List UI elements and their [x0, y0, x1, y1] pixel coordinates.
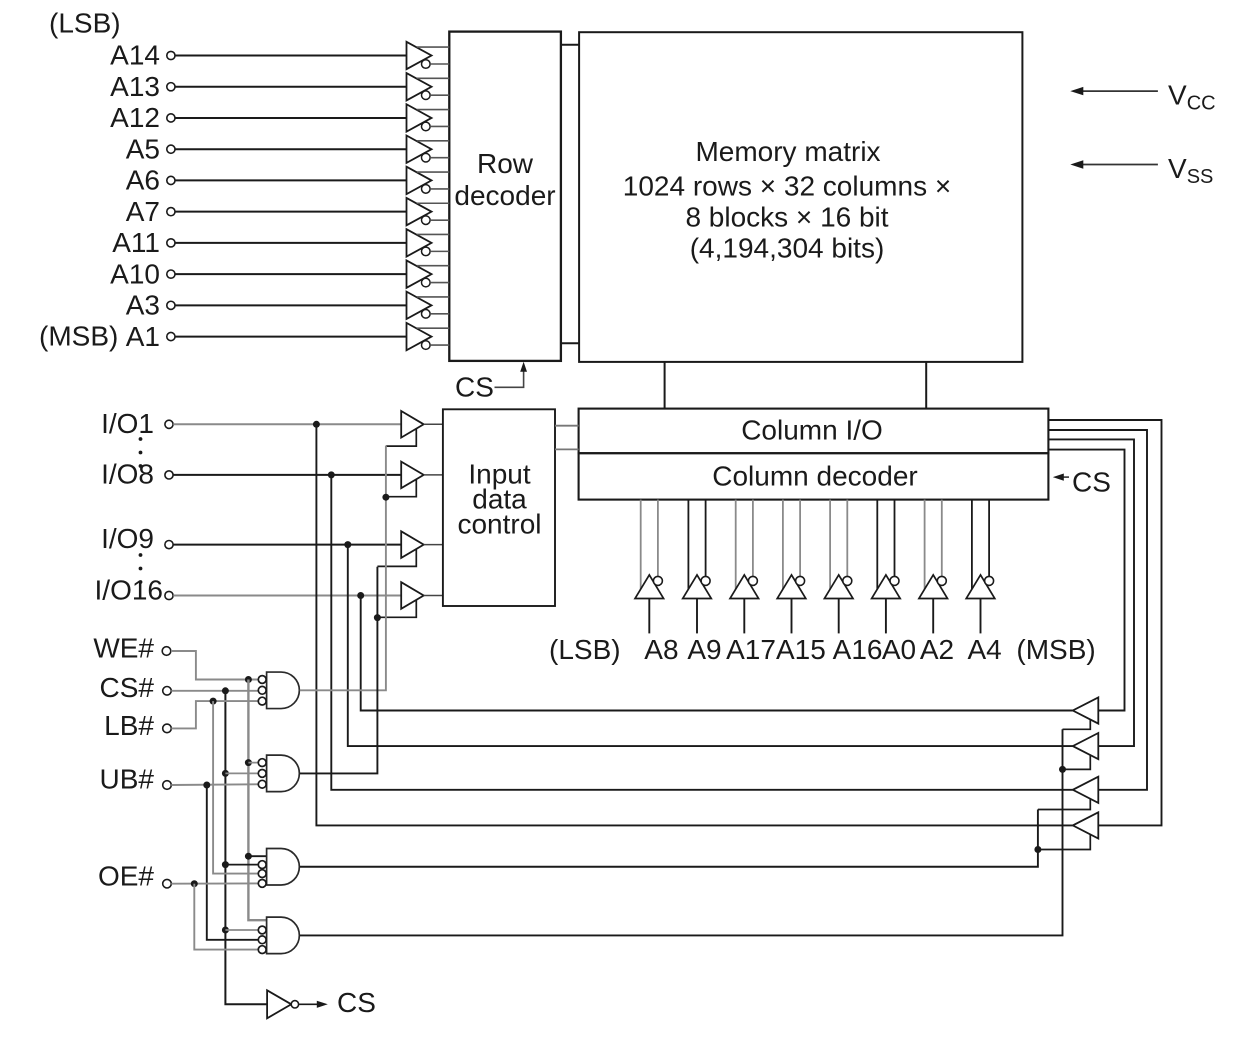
column address buffer A8	[635, 575, 664, 599]
inversion bubble A14	[422, 60, 431, 69]
AND gate G4 (read upper byte)	[267, 917, 300, 954]
vertical wire I/O9 to output line	[348, 545, 1073, 747]
junction WE# gate1	[245, 676, 252, 683]
wire A11 true output	[417, 233, 450, 235]
wire A3 to buffer	[175, 304, 406, 306]
wire A7 true output	[417, 202, 450, 204]
svg-text:A12: A12	[110, 102, 160, 133]
wire A10 true output	[417, 265, 450, 267]
wire A10 complement output	[430, 282, 449, 284]
wire A14 to buffer	[175, 55, 406, 57]
address buffer A7	[407, 198, 432, 225]
input bubble G2	[258, 780, 266, 788]
wire WE# to gate2	[248, 762, 266, 764]
terminal A1	[167, 332, 175, 340]
wire LB# down to gate3	[213, 701, 266, 874]
output buffer for I/O8	[1073, 777, 1099, 803]
wire OE# to gate3	[171, 882, 266, 884]
wire column decoder to buffer A16 complement	[846, 500, 848, 577]
inversion bubble buffer A9	[701, 576, 710, 585]
wire I/O8 to input buffer	[173, 474, 401, 476]
wire A12 complement output	[430, 125, 449, 127]
terminal A10	[167, 270, 175, 278]
terminal I/O1	[165, 420, 173, 428]
wire buffer A0 input stub	[885, 599, 887, 634]
column address buffer A17	[730, 575, 759, 599]
column address buffer A2	[919, 575, 948, 599]
wire buffer I/O9 to input data control	[424, 544, 443, 546]
column I/O block	[579, 409, 1049, 454]
address buffer A11	[407, 229, 432, 256]
wire A12 to buffer	[175, 117, 406, 119]
svg-text:A5: A5	[126, 133, 160, 164]
svg-text:A3: A3	[126, 290, 160, 321]
wire enable hook output buffer I/O9	[1063, 755, 1091, 769]
svg-text:8 blocks × 16 bit: 8 blocks × 16 bit	[685, 201, 888, 232]
wire column I/O data line 1	[1048, 420, 1161, 825]
wire column decoder to buffer A9 true	[687, 500, 689, 590]
wire A12 true output	[417, 109, 450, 111]
input bubble G2	[258, 770, 266, 778]
output buffer for I/O9	[1073, 733, 1099, 759]
junction WE# gate2	[245, 759, 252, 766]
arrow CS output	[317, 1001, 328, 1008]
svg-text:I/O1: I/O1	[101, 408, 154, 439]
terminal A7	[167, 208, 175, 216]
svg-text:Memory matrix: Memory matrix	[695, 136, 880, 167]
svg-text:LB#: LB#	[104, 710, 154, 741]
wire A1 complement output	[430, 344, 449, 346]
junction I/O9	[344, 541, 351, 548]
svg-text:I/O8: I/O8	[101, 459, 154, 490]
wire A11 complement output	[430, 250, 449, 252]
address buffer A12	[407, 104, 432, 131]
output buffer for I/O1	[1073, 812, 1099, 838]
wire enable hook buffer I/O8	[386, 479, 416, 496]
input data control block	[443, 409, 555, 606]
column decoder block	[579, 453, 1049, 499]
inversion bubble A11	[422, 247, 431, 256]
input bubble G3	[258, 880, 266, 888]
column address buffer A0	[872, 575, 901, 599]
wire column I/O data line 4	[1048, 450, 1124, 711]
wire column decoder to buffer A4 true	[971, 500, 973, 590]
bus memory matrix to column I/O right	[925, 362, 927, 409]
wire enable hook output buffer I/O1	[1038, 834, 1090, 849]
AND gate G1 (write lower byte)	[267, 672, 300, 709]
wire CS# to gate4	[225, 929, 266, 931]
svg-text:A6: A6	[126, 165, 160, 196]
wire A14 complement output	[430, 63, 449, 65]
wire column I/O data line 2	[1048, 430, 1147, 790]
svg-text:(4,194,304 bits): (4,194,304 bits)	[690, 232, 885, 263]
junction G1 enable at I/O8 hook	[382, 494, 389, 501]
input bubble G4	[258, 946, 266, 954]
svg-text:A16: A16	[833, 634, 883, 665]
power VSS arrow	[1076, 164, 1158, 166]
AND gate G3 (read lower byte)	[267, 849, 300, 886]
address buffer A13	[407, 73, 432, 100]
wire A5 complement output	[430, 157, 449, 159]
wire buffer A9 input stub	[696, 599, 698, 634]
wire buffer A16 input stub	[838, 599, 840, 634]
svg-text:A4: A4	[967, 634, 1001, 665]
junction CS#	[222, 687, 229, 694]
wire buffer A2 input stub	[932, 599, 934, 634]
terminal A12	[167, 114, 175, 122]
wire G1 output to write enable bus	[300, 446, 386, 691]
wire column decoder to buffer A17 complement	[752, 500, 754, 577]
wire buffer A15 input stub	[791, 599, 793, 634]
input bubble G4	[258, 926, 266, 934]
inversion bubble buffer A0	[890, 576, 899, 585]
svg-text:UB#: UB#	[100, 764, 155, 795]
inversion bubble buffer A15	[796, 576, 805, 585]
junction I/O1	[313, 421, 320, 428]
input bubble G3	[258, 870, 266, 878]
wire A6 true output	[417, 171, 450, 173]
wire column decoder to buffer A15 true	[782, 500, 784, 590]
svg-text:Row: Row	[477, 148, 534, 179]
wire column decoder to buffer A8 true	[640, 500, 642, 590]
wire column decoder to buffer A2 complement	[941, 500, 943, 577]
input bubble G1	[258, 676, 266, 684]
svg-text:CS: CS	[1072, 467, 1111, 498]
inversion bubble buffer A16	[843, 576, 852, 585]
wire A14 true output	[417, 46, 450, 48]
input buffer I/O1	[401, 411, 424, 438]
wire OE# down to gate4	[194, 884, 266, 950]
terminal A14	[167, 51, 175, 59]
svg-text:CS: CS	[455, 372, 494, 403]
junction I/O16	[357, 592, 364, 599]
terminal WE#	[162, 647, 171, 656]
wire I/O16 to input buffer	[173, 595, 401, 597]
svg-text:Column decoder: Column decoder	[712, 460, 917, 491]
wire A1 true output	[417, 327, 450, 329]
wire UB# down to gate4	[207, 785, 266, 940]
AND gate G2 (write upper byte)	[267, 755, 300, 792]
inversion bubble buffer A4	[985, 576, 994, 585]
junction WE# gate3	[245, 853, 252, 860]
address buffer A10	[407, 260, 432, 287]
svg-text:I/O16: I/O16	[95, 575, 163, 606]
wire WE#	[171, 651, 266, 680]
terminal I/O16	[165, 591, 173, 599]
wire column decoder to buffer A16 true	[829, 500, 831, 590]
svg-text:decoder: decoder	[454, 180, 555, 211]
terminal LB#	[163, 724, 172, 733]
output buffer for I/O16	[1073, 697, 1099, 723]
wire enable hook buffer I/O1	[386, 429, 416, 446]
terminal A3	[167, 301, 175, 309]
inversion bubble buffer A8	[653, 576, 662, 585]
input bubble G3	[258, 861, 266, 869]
inversion bubble A6	[422, 185, 431, 194]
svg-text:(MSB): (MSB)	[39, 321, 118, 352]
junction CS# gate3	[222, 861, 229, 868]
terminal I/O8	[165, 471, 173, 479]
address buffer A1	[407, 323, 432, 350]
address buffer A3	[407, 292, 432, 319]
wire CS# to gate1	[171, 690, 266, 692]
svg-text:A7: A7	[126, 196, 160, 227]
wire column decoder to buffer A0 complement	[894, 500, 896, 577]
power VCC arrow	[1076, 90, 1158, 92]
wire A13 true output	[417, 77, 450, 79]
input buffer I/O8	[401, 462, 424, 489]
inversion bubble A13	[422, 91, 431, 100]
wire buffer I/O16 to input data control	[424, 595, 443, 597]
wire A13 complement output	[430, 94, 449, 96]
svg-text:A14: A14	[110, 40, 160, 71]
inversion bubble A5	[422, 153, 431, 162]
wire A6 to buffer	[175, 179, 406, 181]
input bubble G4	[258, 936, 266, 944]
svg-text:A17: A17	[726, 634, 776, 665]
svg-text:CS#: CS#	[100, 672, 155, 703]
terminal A13	[167, 83, 175, 91]
svg-text:A13: A13	[110, 71, 160, 102]
wire I/O1 to input buffer	[173, 423, 401, 425]
memory matrix block	[579, 32, 1022, 362]
wire CS# bus down to inverter	[225, 691, 267, 1005]
inversion bubble buffer A2	[937, 576, 946, 585]
bus row decoder to memory matrix top	[561, 44, 579, 46]
svg-text:I/O9: I/O9	[101, 523, 154, 554]
svg-text:A8: A8	[644, 634, 678, 665]
svg-text:CS: CS	[337, 987, 376, 1018]
svg-text:OE#: OE#	[98, 861, 154, 892]
wire CS# to gate2	[225, 772, 266, 774]
wire CS# to gate3	[225, 864, 266, 866]
wire A5 true output	[417, 140, 450, 142]
wire A5 to buffer	[175, 148, 406, 150]
CS input to column decoder: arrow	[1062, 476, 1069, 478]
arrow into row decoder	[520, 362, 527, 372]
wire CS to row decoder	[495, 370, 524, 387]
terminal OE#	[163, 879, 172, 888]
wire enable hook output buffer I/O8	[1038, 799, 1090, 810]
terminal A5	[167, 145, 175, 153]
junction OE#	[191, 880, 198, 887]
wire buffer A4 input stub	[980, 599, 982, 634]
input buffer I/O16	[401, 582, 424, 609]
wire A3 true output	[417, 296, 450, 298]
svg-text:A2: A2	[920, 634, 954, 665]
junction G2 enable at I/O16 hook	[374, 614, 381, 621]
inversion bubble A7	[422, 216, 431, 225]
junction UB#	[203, 782, 210, 789]
wire column decoder to buffer A0 true	[876, 500, 878, 590]
svg-text:A10: A10	[110, 258, 160, 289]
wire A13 to buffer	[175, 86, 406, 88]
terminal A6	[167, 176, 175, 184]
wire column decoder to buffer A17 true	[735, 500, 737, 590]
junction G4 enable at buffer B hook	[1059, 766, 1066, 773]
wire I/O9 to input buffer	[173, 544, 401, 546]
wire enable hook buffer I/O16	[377, 600, 416, 617]
inversion bubble buffer A17	[748, 576, 757, 585]
wire input data control to column I/O lower	[555, 448, 579, 450]
bus row decoder to memory matrix bottom	[561, 342, 579, 344]
wire inverter output	[299, 1003, 318, 1005]
svg-text:A0: A0	[882, 634, 916, 665]
address buffer A14	[407, 42, 432, 69]
vertical wire I/O1 to output line	[316, 424, 1072, 825]
svg-text:WE#: WE#	[93, 633, 154, 664]
wire A1 to buffer	[175, 336, 406, 338]
wire UB# to gate2	[171, 783, 266, 786]
wire WE# to gate3 plain input	[248, 855, 266, 857]
vertical wire I/O16 to output line	[361, 596, 1073, 711]
svg-text:(LSB): (LSB)	[549, 634, 621, 665]
junction G3 enable at buffer D hook	[1034, 846, 1041, 853]
wire column decoder to buffer A9 complement	[705, 500, 707, 577]
wire column I/O data line 3	[1048, 439, 1134, 746]
wire A7 complement output	[430, 219, 449, 221]
svg-text:(MSB): (MSB)	[1016, 634, 1095, 665]
wire A10 to buffer	[175, 273, 406, 275]
input buffer I/O9	[401, 531, 424, 558]
svg-text:Column I/O: Column I/O	[741, 414, 883, 445]
inversion bubble A12	[422, 122, 431, 131]
wire A3 complement output	[430, 313, 449, 315]
svg-text:A9: A9	[687, 634, 721, 665]
wire buffer I/O8 to input data control	[424, 474, 443, 476]
wire G3 output to read enable bus	[300, 810, 1038, 867]
input bubble G2	[258, 759, 266, 767]
junction CS# gate4	[222, 927, 229, 934]
junction CS# gate2	[222, 770, 229, 777]
column address buffer A4	[966, 575, 995, 599]
inversion bubble A1	[422, 341, 431, 350]
wire G2 output to write enable bus	[300, 567, 378, 774]
svg-text:1024 rows × 32 columns ×: 1024 rows × 32 columns ×	[623, 170, 951, 201]
wire G4 output to read enable bus	[300, 729, 1063, 935]
wire buffer I/O1 to input data control	[424, 423, 443, 425]
wire A7 to buffer	[175, 211, 406, 213]
column address buffer A9	[683, 575, 712, 599]
wire A11 to buffer	[175, 242, 406, 244]
vertical wire I/O8 to output line	[331, 475, 1073, 790]
svg-text:(LSB): (LSB)	[49, 8, 121, 39]
wire WE# bus down	[248, 680, 266, 921]
svg-text:A1: A1	[126, 321, 160, 352]
wire A6 complement output	[430, 188, 449, 190]
wire column decoder to buffer A8 complement	[657, 500, 659, 577]
inversion bubble A10	[422, 278, 431, 287]
wire column decoder to buffer A4 complement	[988, 500, 990, 577]
svg-text:A15: A15	[776, 634, 826, 665]
wire column decoder to buffer A2 true	[924, 500, 926, 590]
inversion bubble A3	[422, 310, 431, 319]
junction LB#	[210, 698, 217, 705]
ellipsis dots between I/O9 and I/O16	[139, 553, 143, 557]
wire enable hook output buffer I/O16	[1063, 720, 1091, 730]
terminal A11	[167, 239, 175, 247]
address buffer A6	[407, 167, 432, 194]
wire enable hook buffer I/O9	[377, 549, 416, 566]
svg-text:A11: A11	[112, 227, 160, 258]
ellipsis dots between I/O1 and I/O8	[139, 437, 143, 441]
terminal CS#	[163, 687, 172, 696]
input bubble G1	[258, 686, 266, 694]
wire LB#	[171, 701, 266, 728]
row decoder block	[449, 32, 561, 361]
inverter CS	[267, 990, 291, 1018]
terminal I/O9	[165, 541, 173, 549]
junction I/O8	[328, 471, 335, 478]
svg-text:control: control	[457, 508, 541, 539]
wire buffer A17 input stub	[743, 599, 745, 634]
inversion bubble inverter	[291, 1001, 298, 1008]
input bubble G1	[258, 697, 266, 705]
wire input data control to column I/O upper	[555, 425, 579, 427]
column address buffer A15	[777, 575, 806, 599]
wire buffer A8 input stub	[648, 599, 650, 634]
bus memory matrix to column I/O left	[664, 362, 666, 409]
column address buffer A16	[824, 575, 853, 599]
wire column decoder to buffer A15 complement	[799, 500, 801, 577]
address buffer A5	[407, 135, 432, 162]
terminal UB#	[163, 781, 172, 790]
